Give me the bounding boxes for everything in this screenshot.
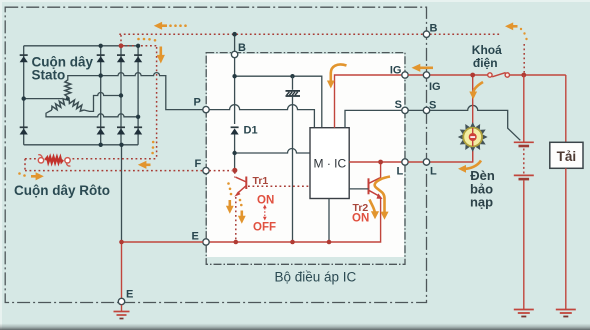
B+ dotted link to key circuit: [520, 28, 528, 73]
rotor field coil: [45, 157, 63, 162]
arrow orange Tr2 lower-left: [370, 200, 380, 220]
wire L external red: [408, 150, 473, 162]
diode leg 3: [137, 46, 139, 145]
node phase2-leg2: [119, 93, 123, 97]
node D1-branch: [232, 151, 236, 155]
B+ dotted drop to rectifier output: [120, 35, 122, 45]
wire phase1 to leg1 and P with hops: [68, 73, 203, 110]
terminal E (alternator bottom): [118, 298, 124, 304]
wire IG external red: [408, 74, 488, 76]
battery BAT lead: [523, 75, 525, 142]
diode leg 2: [120, 46, 122, 145]
B vertical wire from B+ line into regulator: [234, 34, 236, 51]
MIC ground drop to E line: [328, 199, 330, 243]
B+ dotted line from rectifier to battery: [119, 33, 501, 35]
svg-text:IG: IG: [429, 81, 441, 93]
arrow orange IG into MIC: [327, 64, 347, 88]
svg-text:L: L: [397, 166, 404, 178]
svg-text:ON: ON: [352, 213, 369, 225]
stator coil phase1 (vertical): [65, 80, 71, 99]
terminal F: [203, 167, 209, 173]
load box Tai: [550, 142, 583, 168]
arrow orange top-left (flow to rectifier): [154, 22, 187, 30]
node bottom-rail-leg1: [99, 143, 103, 147]
node rectifier output (red): [119, 43, 124, 48]
stator coil phase2 (lower right): [69, 100, 84, 111]
diode bottom leg1: [97, 127, 105, 134]
node leg1 top: [99, 44, 103, 48]
capacitor C: [286, 76, 301, 242]
node F junction (red): [232, 168, 237, 173]
Tr1 emitter dotted to E line: [235, 197, 237, 241]
wire L internal red: [349, 161, 402, 163]
charge warning lamp: [459, 123, 487, 151]
field dotted along rail to rotor drop: [123, 45, 157, 47]
diode bottom leg3: [134, 127, 142, 134]
Tr1 collector dotted: [234, 172, 236, 178]
ground (battery): [514, 310, 534, 317]
stator coil phase3 (lower left): [52, 99, 67, 110]
ground (alternator E): [114, 305, 130, 319]
node MIC-E: [327, 240, 332, 245]
node Tr1-E: [234, 240, 239, 245]
svg-text:B: B: [238, 42, 246, 54]
rotor upper dotted wire: [25, 158, 37, 160]
stator neutral wire: [24, 98, 62, 100]
node L-Tr2: [378, 160, 383, 165]
terminal P: [203, 106, 209, 112]
svg-text:Bộ điều áp IC: Bộ điều áp IC: [275, 270, 357, 285]
ground (load): [556, 310, 576, 317]
transistor Q Tr1: [234, 177, 246, 197]
rectifier bottom rail: [24, 144, 138, 146]
terminal L (alternator border): [423, 159, 429, 165]
IC regulator box border: [206, 53, 405, 265]
svg-text:P: P: [194, 97, 201, 109]
svg-text:E: E: [126, 289, 133, 301]
svg-text:OFF: OFF: [253, 222, 276, 234]
rotor slip ring left: [38, 155, 44, 163]
svg-text:M · IC: M · IC: [314, 157, 347, 171]
diode leg 1: [100, 46, 102, 145]
battery ground lead: [523, 180, 525, 309]
load wire down: [565, 75, 567, 142]
svg-text:IG: IG: [390, 65, 402, 77]
diode top leg3: [134, 55, 142, 62]
arrow orange Tr1 lower: [238, 199, 246, 224]
node phase3-leg3: [136, 115, 140, 119]
diode bottom left-rail: [20, 127, 28, 134]
MIC block U1: [310, 128, 349, 199]
lamp branch wire: [472, 75, 474, 162]
node stator Y center: [66, 97, 70, 101]
regulator interior white fill: [207, 54, 404, 257]
node cap-E: [290, 240, 295, 245]
arrow orange B+ top right: [505, 22, 518, 30]
terminal IG (alternator border): [423, 72, 429, 78]
svg-text:B: B: [430, 23, 438, 35]
arrow orange Tr1 upper: [226, 182, 234, 214]
ignition switch SW: [488, 73, 566, 78]
arrow orange into rotor: [138, 141, 155, 169]
terminal B (alternator border): [423, 31, 429, 37]
rectifier top rail: [24, 45, 138, 47]
svg-text:E: E: [192, 231, 199, 243]
battery BAT cell 1: [514, 142, 534, 146]
node E-drop: [119, 240, 124, 245]
arrow orange rotor to F: [18, 172, 44, 180]
arrow orange at IG terminal: [412, 64, 434, 72]
terminal IG (regulator): [402, 72, 408, 78]
node lamp-IG: [470, 73, 475, 78]
terminal L (regulator): [402, 159, 408, 165]
diode D1: [231, 127, 239, 170]
node phase1-leg1: [99, 73, 103, 77]
alternator enclosure border: [5, 7, 426, 302]
branch B to MIC: [235, 76, 322, 128]
diode top leg2: [117, 55, 125, 62]
arrow orange Tr2 squiggle: [375, 177, 390, 220]
node capacitor top: [290, 74, 294, 78]
E wire to alternator ground: [122, 242, 203, 298]
rectifier left rail: [23, 46, 25, 145]
battery BAT cell 2: [514, 175, 534, 179]
node B+/B: [232, 32, 237, 37]
node bottom-rail-leg2: [119, 143, 123, 147]
load ground lead: [565, 168, 567, 309]
wire bottom rail to E node: [121, 145, 123, 242]
field dotted vertical to rotor: [156, 47, 158, 159]
wire IG internal red: [335, 75, 402, 128]
F dotted wire inside to Tr1 collector node: [209, 170, 232, 172]
node neutral-left-rail: [22, 96, 26, 100]
arrow orange key to lamp: [469, 82, 483, 100]
svg-text:L: L: [430, 166, 437, 178]
E line (red) inside regulator: [206, 198, 381, 242]
svg-text:D1: D1: [244, 125, 258, 137]
P wire inside with hops to MIC: [209, 105, 314, 128]
terminal B (regulator): [231, 51, 237, 57]
arrow orange lamp to L: [458, 161, 481, 173]
svg-text:nạp: nạp: [470, 195, 493, 210]
wire S external: [408, 105, 520, 140]
Tr1 base dotted to MIC: [248, 185, 310, 187]
terminal S (alternator border): [423, 107, 429, 113]
svg-text:Stato: Stato: [32, 68, 66, 83]
svg-text:Tải: Tải: [557, 149, 577, 164]
rotor slip ring right: [65, 158, 71, 166]
svg-text:F: F: [195, 158, 202, 170]
branch D1 node to MIC with hop: [235, 149, 310, 154]
wire phase3 to leg3 with hops: [46, 110, 138, 117]
node battery-IG wire: [521, 73, 526, 78]
svg-text:điện: điện: [473, 56, 498, 70]
transistor Q Tr2: [349, 178, 382, 199]
rotor loop left: [24, 159, 26, 171]
Tr2 collector wire: [380, 164, 382, 178]
svg-text:Tr1: Tr1: [253, 175, 269, 187]
rotor lower dotted wire to F: [25, 170, 203, 172]
B wire inside regulator: [234, 58, 236, 124]
node B-branch: [232, 74, 236, 78]
svg-text:S: S: [429, 100, 436, 112]
svg-text:ON: ON: [257, 195, 274, 207]
svg-text:Cuộn dây Rôto: Cuộn dây Rôto: [14, 183, 110, 198]
wire phase2 to leg2 with hop over leg1: [84, 93, 121, 112]
terminal E (regulator): [203, 239, 209, 245]
diode bottom leg2: [117, 127, 125, 134]
battery dashed middle: [523, 149, 525, 174]
wire S internal: [345, 110, 402, 127]
terminal S (regulator): [402, 107, 408, 113]
node leg3 top: [136, 44, 140, 48]
ON/OFF dotted double arrow: [263, 205, 267, 221]
diode top leg1: [97, 55, 105, 62]
svg-text:S: S: [395, 99, 402, 111]
white edge strips: [0, 0, 590, 2]
diode top left-rail: [20, 55, 28, 62]
arrow orange field down from rail: [137, 38, 165, 64]
